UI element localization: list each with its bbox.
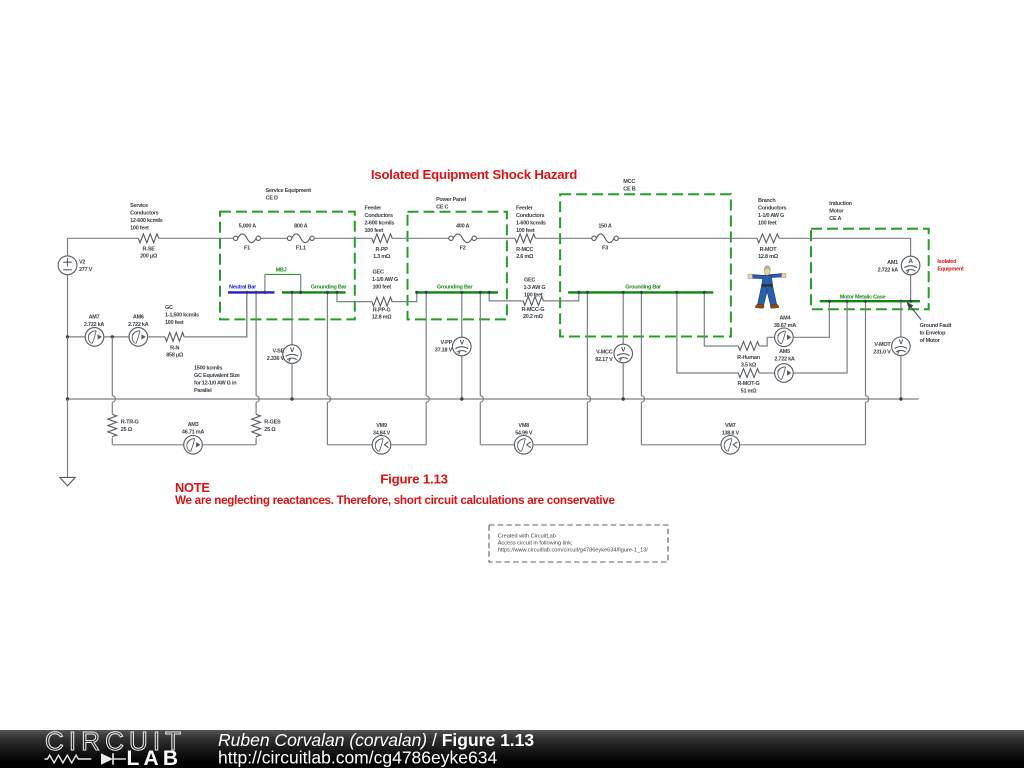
svg-text:https://www.circuitlab.com/cir: https://www.circuitlab.com/circuit/g4786… <box>498 547 649 553</box>
svg-text:Neutral Bar: Neutral Bar <box>229 284 257 290</box>
svg-text:V-MCC: V-MCC <box>596 350 613 356</box>
label GC 1-1,500 kcmils <box>165 305 199 326</box>
fuse F1 <box>233 224 260 252</box>
svg-text:231.0 V: 231.0 V <box>873 350 891 356</box>
svg-text:GEC: GEC <box>373 269 384 275</box>
enclosure box CE C (Power Panel) <box>408 212 507 320</box>
fuse F3 <box>592 224 619 252</box>
svg-text:Conductors: Conductors <box>758 206 787 212</box>
voltmeter V-MCC <box>595 292 632 400</box>
svg-text:V-PP: V-PP <box>440 340 452 346</box>
resistor R-GES with hop <box>252 292 281 444</box>
svg-text:Created with CircuitLab: Created with CircuitLab <box>498 533 556 539</box>
svg-text:R-MOT: R-MOT <box>760 247 778 253</box>
node dots CE C bar <box>415 291 418 294</box>
voltmeter V-MOT <box>873 301 910 400</box>
svg-text:Service Equipment: Service Equipment <box>266 188 312 194</box>
svg-text:400 A: 400 A <box>456 224 470 230</box>
voltmeter VM7 <box>641 423 865 454</box>
svg-text:R-N: R-N <box>170 346 179 352</box>
svg-text:V-SE: V-SE <box>272 349 284 355</box>
svg-text:12-600 kcmils: 12-600 kcmils <box>130 218 163 224</box>
motor metalic case bar <box>820 295 920 302</box>
svg-text:V: V <box>621 346 626 353</box>
svg-text:R-MOT-G: R-MOT-G <box>737 381 759 387</box>
voltmeter V-SE <box>267 292 302 400</box>
svg-text:of Motor: of Motor <box>920 338 941 344</box>
svg-text:Equipment: Equipment <box>937 267 964 273</box>
wire AM1 to motor case bar <box>910 275 912 301</box>
label Isolated Equipment (red) <box>937 259 964 273</box>
svg-text:V2: V2 <box>79 260 85 266</box>
svg-text:R-Human: R-Human <box>737 355 761 361</box>
svg-text:100 feet: 100 feet <box>130 225 149 231</box>
svg-text:F1: F1 <box>244 246 250 252</box>
svg-text:150 A: 150 A <box>598 224 612 230</box>
VM8 right leg to CE B bar <box>587 292 590 444</box>
ground symbol <box>60 477 75 486</box>
svg-text:Grounding Bar: Grounding Bar <box>311 284 348 290</box>
node dot V2-AM7 <box>66 335 69 338</box>
label MCC CE B <box>623 179 635 193</box>
VM7 left leg from CE B bar <box>641 292 644 444</box>
MBJ jumper <box>265 267 301 292</box>
svg-text:100 feet: 100 feet <box>524 292 543 298</box>
resistor R-MOT <box>757 234 779 260</box>
ammeter AM1 <box>878 256 920 275</box>
svg-text:CE B: CE B <box>623 186 635 192</box>
wire F2 to R-MCC <box>476 237 515 239</box>
svg-text:R-GES: R-GES <box>264 420 281 426</box>
svg-text:AM5: AM5 <box>779 349 790 355</box>
node dots on neutral bar <box>245 291 248 294</box>
wire R-MOT to AM1 corner <box>779 238 911 256</box>
label Induction Motor CE A <box>829 201 852 222</box>
svg-text:20.2 mΩ: 20.2 mΩ <box>523 314 544 320</box>
svg-text:MCC: MCC <box>623 179 635 185</box>
label Branch Conductors <box>758 198 787 227</box>
svg-text:100 feet: 100 feet <box>516 228 535 234</box>
svg-text:V: V <box>899 339 904 346</box>
svg-text:138.8 V: 138.8 V <box>722 431 740 437</box>
wire top bus from V2 to R-SE <box>68 237 139 239</box>
svg-text:2.336 V: 2.336 V <box>267 356 285 362</box>
svg-text:AM1: AM1 <box>887 260 898 266</box>
svg-text:AM4: AM4 <box>779 316 791 322</box>
label 1500 kcmils GC Equivalent Size <box>194 366 240 395</box>
svg-text:F1.1: F1.1 <box>296 246 306 252</box>
svg-text:1-1/0 AW G: 1-1/0 AW G <box>372 277 398 283</box>
svg-text:CE A: CE A <box>829 216 841 222</box>
fuse F1.1 <box>287 224 314 252</box>
wire R-N to neutral bar riser <box>184 292 247 337</box>
wire R-MCC to F3 <box>535 237 591 239</box>
svg-text:Induction: Induction <box>829 201 852 207</box>
svg-text:Parallel: Parallel <box>194 388 212 394</box>
svg-text:1-3 AW G: 1-3 AW G <box>524 285 546 291</box>
enclosure box CE B (MCC) <box>560 194 731 336</box>
svg-text:2.722 kA: 2.722 kA <box>84 322 105 328</box>
svg-text:AM7: AM7 <box>89 315 100 321</box>
svg-text:R-SE: R-SE <box>143 246 156 252</box>
svg-text:AM3: AM3 <box>188 422 199 428</box>
earth bus <box>68 398 919 400</box>
svg-text:VM7: VM7 <box>725 423 736 429</box>
VM8 left leg from CE C bar <box>480 292 483 444</box>
svg-text:51 mΩ: 51 mΩ <box>741 388 758 394</box>
svg-text:GC Equivalent Size: GC Equivalent Size <box>194 373 240 379</box>
svg-text:GEC: GEC <box>524 277 535 283</box>
ammeter AM7 <box>68 315 105 347</box>
resistor R-SE <box>138 234 158 259</box>
label GEC 1-3 AW G <box>524 277 546 298</box>
node dots CE B bar <box>577 291 580 294</box>
svg-text:V: V <box>460 339 465 346</box>
wire F1 to F1.1 <box>261 237 288 239</box>
svg-text:100 feet: 100 feet <box>365 228 384 234</box>
voltage source V2 <box>58 238 93 337</box>
svg-text:1.3 mΩ: 1.3 mΩ <box>373 254 391 260</box>
svg-text:12.8 mΩ: 12.8 mΩ <box>372 315 393 321</box>
label GEC 1-1/0 AW G <box>372 269 398 290</box>
svg-text:F3: F3 <box>602 246 608 252</box>
ammeter AM6 <box>104 315 149 347</box>
svg-text:Conductors: Conductors <box>365 213 394 219</box>
svg-text:200 μΩ: 200 μΩ <box>140 253 158 259</box>
svg-text:100 feet: 100 feet <box>758 221 777 227</box>
svg-text:92.17 V: 92.17 V <box>595 357 613 363</box>
svg-text:VM9: VM9 <box>376 423 387 429</box>
svg-text:34.84 V: 34.84 V <box>373 431 391 437</box>
resistor R-MCC <box>515 234 535 260</box>
svg-text:R-MCC-G: R-MCC-G <box>522 307 545 313</box>
ammeter AM4 <box>774 301 830 346</box>
svg-text:VM8: VM8 <box>518 423 529 429</box>
grounding bar CE C <box>416 284 498 292</box>
svg-text:R-PP: R-PP <box>376 247 389 253</box>
VM9 loop left leg (from CE D bar, hops bus) <box>327 292 330 444</box>
grounding bar CE D <box>282 284 347 292</box>
svg-text:MBJ: MBJ <box>276 267 287 273</box>
human figure <box>748 266 786 309</box>
svg-text:2-600 kcmils: 2-600 kcmils <box>365 221 395 227</box>
svg-text:3.5 kΩ: 3.5 kΩ <box>741 362 757 368</box>
fuse F2 <box>449 224 477 252</box>
svg-text:2.722 kA: 2.722 kA <box>878 268 899 274</box>
svg-text:NOTE: NOTE <box>175 480 210 495</box>
svg-text:Motor: Motor <box>829 209 844 215</box>
neutral bar (blue) <box>228 284 274 292</box>
AM4 branch: R-Human <box>704 292 774 368</box>
node dots CE D bar <box>290 291 293 294</box>
voltmeter V-PP <box>435 292 471 400</box>
svg-text:Service: Service <box>130 203 148 209</box>
svg-text:for 12-1/0 AW G in: for 12-1/0 AW G in <box>194 381 237 387</box>
svg-text:AM6: AM6 <box>133 315 144 321</box>
resistor R-N <box>148 333 185 359</box>
svg-text:Figure 1.13: Figure 1.13 <box>380 472 447 487</box>
svg-text:Isolated Equipment Shock Hazar: Isolated Equipment Shock Hazard <box>371 167 577 182</box>
label Feeder Conductors 2-600 <box>365 206 395 235</box>
label Power Panel CE C <box>436 197 467 211</box>
svg-text:1500 kcmils: 1500 kcmils <box>194 366 222 372</box>
svg-text:CE D: CE D <box>266 196 278 202</box>
svg-text:V-MOT: V-MOT <box>874 342 891 348</box>
svg-text:Feeder: Feeder <box>516 206 534 212</box>
enclosure box CE A (Induction Motor) <box>811 229 929 309</box>
svg-text:Grounding Bar: Grounding Bar <box>437 284 474 290</box>
wire V2 down to earth bus <box>67 337 69 399</box>
svg-text:54.99 V: 54.99 V <box>515 431 533 437</box>
svg-text:12.8 mΩ: 12.8 mΩ <box>758 254 779 260</box>
svg-text:F2: F2 <box>460 246 466 252</box>
label Feeder Conductors 1-600 <box>516 206 546 235</box>
svg-text:Isolated: Isolated <box>937 259 956 265</box>
ammeter AM5 <box>774 301 847 382</box>
svg-text:http://circuitlab.com/cg4786ey: http://circuitlab.com/cg4786eyke634 <box>218 748 497 768</box>
svg-text:2.6 mΩ: 2.6 mΩ <box>516 254 534 260</box>
resistor R-MCC-G path (GEC) <box>489 292 579 320</box>
svg-text:2.722 kA: 2.722 kA <box>774 356 795 362</box>
node dot earth-V2 <box>66 397 69 400</box>
svg-text:1-1,500 kcmils: 1-1,500 kcmils <box>165 313 199 319</box>
footer bar <box>0 730 1024 768</box>
svg-text:1-1/0 AW G: 1-1/0 AW G <box>758 213 784 219</box>
ammeter AM3 <box>112 422 256 454</box>
wire F1.1 to R-PP <box>314 237 372 239</box>
VM9 right leg to CE C bar <box>426 292 429 444</box>
svg-text:to Envelop: to Envelop <box>920 331 947 337</box>
svg-text:2.722 kA: 2.722 kA <box>128 322 149 328</box>
node dot R-TR-G tap <box>111 335 114 338</box>
resistor R-PP-G path (GEC) <box>337 292 417 320</box>
svg-text:100 feet: 100 feet <box>373 284 392 290</box>
svg-text:25 Ω: 25 Ω <box>264 427 276 433</box>
resistor R-TR-G with hop over bus <box>108 337 139 445</box>
svg-text:100 feet: 100 feet <box>165 320 184 326</box>
logo diode <box>101 753 113 765</box>
wire V2 to ground <box>67 399 69 477</box>
svg-text:39.67 mA: 39.67 mA <box>774 323 796 329</box>
enclosure box CE D (Service Equipment) <box>220 212 355 320</box>
wire R-SE to F1 <box>159 237 234 239</box>
wire F3 to R-MOT <box>618 237 757 239</box>
svg-text:A: A <box>908 258 913 265</box>
voltmeter VM9 <box>327 423 426 454</box>
svg-text:Branch: Branch <box>758 198 776 204</box>
svg-text:LAB: LAB <box>127 747 183 768</box>
wire R-PP to F2 <box>391 237 448 239</box>
svg-text:25 Ω: 25 Ω <box>121 427 133 433</box>
svg-text:Power Panel: Power Panel <box>436 197 467 203</box>
svg-text:277 V: 277 V <box>79 267 93 273</box>
svg-text:We are neglecting reactances.: We are neglecting reactances. Therefore,… <box>175 494 615 507</box>
svg-text:Access circuit in following li: Access circuit in following link; <box>498 540 573 546</box>
svg-text:Grounding Bar: Grounding Bar <box>625 284 662 290</box>
ground fault arrow <box>907 302 952 344</box>
svg-text:800 A: 800 A <box>294 224 308 230</box>
svg-text:46.71 mA: 46.71 mA <box>182 430 204 436</box>
label Service Conductors <box>130 203 163 232</box>
svg-text:Ground Fault: Ground Fault <box>920 323 952 329</box>
svg-text:Conductors: Conductors <box>516 213 545 219</box>
svg-text:5,000 A: 5,000 A <box>239 224 257 230</box>
node dots motor case bar <box>828 300 831 303</box>
svg-text:858 μΩ: 858 μΩ <box>166 353 184 359</box>
created-with box <box>489 525 668 562</box>
svg-text:R-MCC: R-MCC <box>516 247 533 253</box>
svg-text:1-600 kcmils: 1-600 kcmils <box>516 221 546 227</box>
wire neutral bar drops <box>246 292 248 337</box>
svg-text:Conductors: Conductors <box>130 210 159 216</box>
svg-text:R-PP-G: R-PP-G <box>373 308 391 314</box>
svg-text:R-TR-G: R-TR-G <box>121 420 139 426</box>
VM7 right leg to motor case bar <box>866 301 869 445</box>
svg-text:GC: GC <box>165 305 173 311</box>
voltmeter VM8 <box>480 423 587 454</box>
svg-text:CE C: CE C <box>436 205 448 211</box>
svg-text:Feeder: Feeder <box>365 206 383 212</box>
svg-text:37.18 V: 37.18 V <box>435 348 453 354</box>
grounding bar CE B <box>568 284 713 292</box>
AM5 branch: R-MOT-G <box>677 292 775 394</box>
svg-text:V: V <box>290 347 295 354</box>
label Service Equipment CE D <box>266 188 312 202</box>
logo resistor zigzag <box>45 755 92 763</box>
resistor R-PP <box>372 234 392 260</box>
